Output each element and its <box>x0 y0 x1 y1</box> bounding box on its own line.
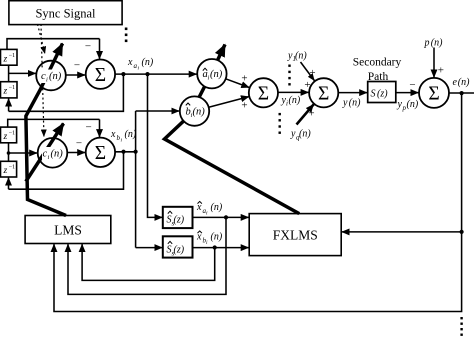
svg-text:LMS: LMS <box>54 223 82 238</box>
svg-text:x: x <box>196 202 202 213</box>
svg-text:+: + <box>309 67 315 79</box>
svg-text:Σ: Σ <box>95 143 106 164</box>
svg-text:(n): (n) <box>295 51 307 62</box>
svg-text:x: x <box>110 129 116 140</box>
svg-text:(n): (n) <box>193 107 206 118</box>
svg-text:−1: −1 <box>9 131 15 137</box>
svg-text:Path: Path <box>368 71 389 83</box>
svg-text:+: + <box>308 107 314 119</box>
svg-text:p: p <box>402 104 407 112</box>
svg-text:Σ: Σ <box>428 84 439 105</box>
svg-text:s: s <box>172 250 175 258</box>
svg-text:i: i <box>208 75 210 82</box>
svg-text:Σ: Σ <box>318 84 329 105</box>
svg-text:(n): (n) <box>51 148 64 159</box>
svg-text:Σ: Σ <box>258 84 269 105</box>
svg-text:+: + <box>438 64 444 76</box>
svg-text:i: i <box>206 240 208 246</box>
svg-text:−: − <box>409 79 415 91</box>
svg-text:(z): (z) <box>174 215 185 226</box>
svg-text:x: x <box>196 232 202 243</box>
svg-text:x: x <box>127 57 133 68</box>
svg-text:−: − <box>85 41 91 53</box>
svg-text:i: i <box>46 77 48 84</box>
svg-text:+: + <box>241 99 247 111</box>
svg-text:(n): (n) <box>142 57 154 68</box>
svg-text:i: i <box>191 112 193 119</box>
svg-text:i: i <box>206 211 208 217</box>
svg-text:s: s <box>172 220 175 228</box>
svg-text:(n): (n) <box>210 69 223 80</box>
svg-text:p: p <box>424 38 430 49</box>
svg-text:Sync Signal: Sync Signal <box>35 7 96 21</box>
svg-text:(n): (n) <box>125 129 137 140</box>
svg-text:i: i <box>286 100 288 108</box>
svg-text:S: S <box>371 89 376 100</box>
svg-text:y: y <box>342 98 348 109</box>
svg-text:Σ: Σ <box>95 65 106 86</box>
svg-text:i: i <box>48 154 50 161</box>
svg-text:z: z <box>3 132 8 142</box>
svg-text:(n): (n) <box>211 202 223 213</box>
svg-text:+: + <box>241 73 247 85</box>
svg-text:(n): (n) <box>299 129 311 140</box>
svg-text:FXLMS: FXLMS <box>273 228 318 243</box>
svg-text:i: i <box>138 66 140 72</box>
svg-text:z: z <box>3 166 8 176</box>
svg-text:+: + <box>304 79 310 91</box>
svg-text:−: − <box>76 138 82 150</box>
svg-text:(n): (n) <box>289 95 301 106</box>
svg-text:(n): (n) <box>49 71 62 82</box>
svg-text:(n): (n) <box>458 77 470 88</box>
svg-text:(n): (n) <box>349 98 361 109</box>
svg-text:e: e <box>453 77 458 88</box>
svg-text:−1: −1 <box>9 165 15 171</box>
svg-text:Secondary: Secondary <box>353 57 402 69</box>
svg-text:z: z <box>3 87 8 97</box>
svg-text:(n): (n) <box>407 99 419 110</box>
svg-text:(n): (n) <box>431 38 443 49</box>
svg-text:(z): (z) <box>174 245 185 256</box>
svg-text:(n): (n) <box>211 232 223 243</box>
svg-text:−: − <box>85 122 91 134</box>
svg-text:i: i <box>121 138 123 144</box>
svg-text:(z): (z) <box>377 89 388 100</box>
svg-text:−1: −1 <box>9 53 15 59</box>
svg-text:1: 1 <box>293 55 297 63</box>
svg-text:−: − <box>74 60 80 72</box>
svg-text:q: q <box>296 134 300 142</box>
svg-text:−1: −1 <box>9 85 15 91</box>
svg-text:z: z <box>3 55 8 65</box>
